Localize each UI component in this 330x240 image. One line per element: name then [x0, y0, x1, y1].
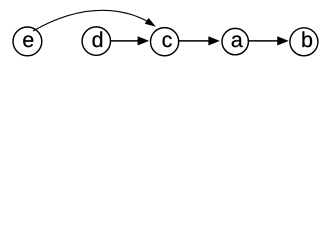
edge d to c — [111, 36, 149, 45]
node b — [290, 28, 318, 56]
edge e to c (curved arc over d) — [33, 10, 156, 31]
edge a to b — [248, 36, 288, 45]
node d — [82, 27, 110, 55]
edge c to a — [179, 36, 220, 45]
node e — [13, 27, 42, 56]
node c — [151, 28, 179, 56]
node a — [222, 28, 248, 54]
